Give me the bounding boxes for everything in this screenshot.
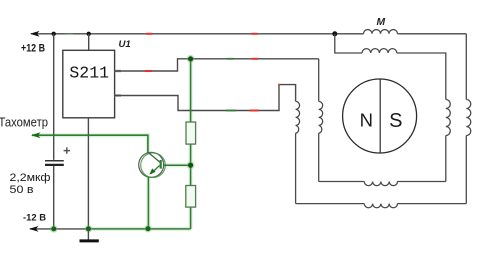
wire U1 top feed vertical [88,34,90,51]
op-amp box U1 S211 [63,50,115,118]
wire winding B top right [397,53,446,182]
wire Q1 emitter down [147,177,149,229]
tachometer green arrow [31,132,41,138]
pin stub U1 pin2 [115,94,121,96]
wire cap bottom lead [53,166,55,229]
net highlight dash red (top rail right) [252,33,258,35]
svg-text:+12 В: +12 В [21,43,45,55]
wire U1 pin1 to winding B [115,59,319,71]
svg-text:-12 В: -12 В [23,212,46,222]
wire winding A bottom [296,203,467,205]
junction dot green (divider top) [187,55,195,63]
junction dot green (emitter / rail) [144,225,152,233]
tachometer wire green [32,135,148,153]
svg-text:M: M [377,17,386,28]
pin stub U1 pin1 [115,70,121,72]
wire winding B feed from rail [335,34,362,53]
-12V rail wire [30,228,88,230]
svg-text:U1: U1 [119,39,131,50]
transistor Q1 emitter stroke with arrow [151,166,160,174]
capacitor C1 2,2мкф plates [45,161,64,165]
motor pole divider line [379,79,381,153]
net highlight dash green (winding B wire) [227,58,234,60]
green net glow underlay [32,59,191,229]
wire winding A right vertical [465,34,467,204]
resistor R2 [186,186,196,208]
net highlight dash red (pin1 wire) [145,70,152,72]
ground symbol [80,239,99,242]
wire cap feed vertical [53,34,55,160]
svg-text:S211: S211 [69,64,109,83]
svg-text:Тахометр: Тахометр [0,116,48,130]
net highlight dash red (top rail left) [146,33,153,35]
-12V rail wire green part [88,228,190,230]
net highlight dash green (top rail) [65,33,73,35]
motor winding B: right coil L6 [446,100,451,136]
junction dot green (ground / rail) [85,225,93,233]
transistor Q1 circle gray [139,152,164,177]
junction dot (motor winding feed, top rail) [332,31,337,36]
wire U1 pin2 to winding A [115,85,296,111]
motor winding B: top coil L5 [362,49,397,53]
transistor Q1 base bar [160,160,162,169]
motor winding B: left coil L8 [319,101,323,133]
motor winding A: right coil L2 [466,100,471,136]
net highlight dash green (winding A wire) [226,110,236,112]
motor M rotor circle [343,79,417,153]
junction dot green (divider mid / base) [187,161,195,169]
svg-text:50 в: 50 в [10,184,34,196]
net highlight dot red (corner) [278,84,280,86]
svg-text:N: N [360,110,373,131]
motor winding A: left coil L4 [296,101,300,133]
junction dot green (cap / rail) [50,225,58,233]
motor winding A: top coil L1 [364,30,398,34]
transistor Q1 circle green highlight [141,153,166,178]
motor winding A: bottom coil L3 [364,204,397,208]
svg-text:2,2мкф: 2,2мкф [10,172,51,184]
motor winding B: bottom coil L7 [364,182,397,186]
wire winding B left vertical [318,59,320,182]
transistor Q1 collector stroke [148,153,160,163]
+12V rail top wire [31,33,466,35]
wire U1 bottom to -12V rail [87,118,89,229]
junction dot (U1 top feed, top rail) [87,32,91,36]
wire divider chain green vertical [190,59,192,229]
ground stub wire [87,229,89,240]
net highlight dash red (winding A wire) [250,110,259,112]
wire Q1 base to divider [163,164,191,166]
-12V arrow [29,226,39,232]
net highlight dash red (winding B wire) [252,58,258,60]
svg-text:S: S [389,110,402,132]
resistor R1 [186,122,196,144]
wire winding B bottom [319,181,446,183]
+12V arrow [30,31,40,37]
junction dot (cap feed, top rail) [52,32,56,36]
wire winding A left vertical [295,133,297,203]
capacitor plus sign [64,147,70,153]
